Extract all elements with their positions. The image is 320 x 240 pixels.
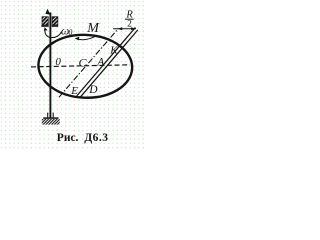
svg-text:0: 0 [68,28,72,37]
svg-text:2: 2 [127,20,132,30]
svg-text:C: C [79,56,88,70]
svg-text:0: 0 [55,56,61,68]
svg-text:A: A [96,56,105,68]
svg-text:M: M [86,21,100,36]
svg-text:D: D [88,84,98,96]
svg-text:Рис.: Рис. [57,132,79,144]
svg-text:E: E [70,85,78,97]
svg-text:K: K [109,44,118,56]
svg-text:Д6.3: Д6.3 [84,132,108,144]
